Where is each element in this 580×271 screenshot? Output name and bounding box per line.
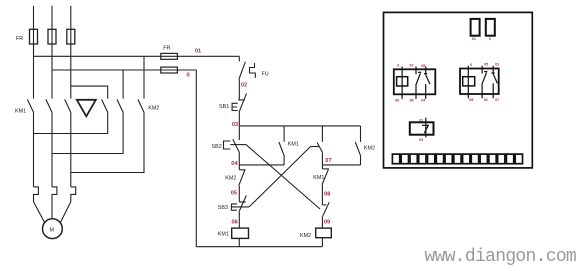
pushbutton SB3 NC (left branch) <box>239 201 246 203</box>
svg-text:02: 02 <box>241 82 247 88</box>
wire KM2 c2 bottom to line V <box>52 112 123 153</box>
contactor KM1 main contact 1 <box>27 99 33 112</box>
fuse FU2 block <box>486 19 495 36</box>
pushbutton SB1 (NC stop) <box>238 93 240 100</box>
fuse FU1 block <box>471 19 480 36</box>
contactor block KM2 <box>460 66 499 99</box>
svg-text:SB2: SB2 <box>212 144 222 150</box>
heater jog line V <box>52 187 57 218</box>
contactor KM1 main contact 2 <box>46 99 52 112</box>
wire neutral 0 vertical down <box>195 70 197 247</box>
svg-text:01: 01 <box>419 119 423 123</box>
contactor KM1 main contact 3 <box>65 99 71 112</box>
svg-text:05: 05 <box>421 64 425 68</box>
svg-text:0: 0 <box>470 63 472 67</box>
svg-text:03: 03 <box>232 122 238 128</box>
svg-text:05: 05 <box>231 190 237 196</box>
mechanical interlock triangle <box>77 100 96 117</box>
wire SB1 to node 03 <box>238 112 240 126</box>
contactor coil KM1 <box>232 228 249 238</box>
wire KM2 coil to bottom bus <box>321 238 323 247</box>
wire bottom bus 0 <box>196 246 322 248</box>
wire bus 01 top horizontal <box>34 55 240 57</box>
contactor KM2 main contact 3 <box>138 99 144 112</box>
svg-text:07: 07 <box>495 98 499 102</box>
svg-text:03: 03 <box>419 138 423 142</box>
svg-text:04: 04 <box>484 98 488 102</box>
pushbutton SB2 NC (right branch) <box>322 204 326 206</box>
svg-text:09: 09 <box>469 98 473 102</box>
svg-text:KM2: KM2 <box>364 145 375 151</box>
contactor KM2 main contact 2 <box>117 99 123 112</box>
svg-text:09: 09 <box>324 220 330 226</box>
wire SB2 to node 04 <box>238 152 240 165</box>
svg-text:07: 07 <box>410 63 414 67</box>
node 03 bus <box>239 125 360 127</box>
svg-text:04: 04 <box>421 99 425 103</box>
contactor KM2 aux NO contact <box>360 126 362 142</box>
contactor coil KM2 <box>316 228 332 238</box>
motor M circle <box>43 219 63 239</box>
wire motor line W <box>70 112 72 186</box>
svg-text:SB1: SB1 <box>219 104 229 110</box>
wire FU to SB1 <box>238 79 240 93</box>
svg-text:06: 06 <box>395 99 399 103</box>
wire motor line V <box>51 112 53 186</box>
wire diagonal SB3 link <box>249 147 311 207</box>
svg-text:0: 0 <box>489 37 491 41</box>
wire diagonal SB2 link <box>246 145 320 209</box>
pushbutton SB3 NO (middle branch) <box>321 126 323 142</box>
svg-text:KM1: KM1 <box>288 142 299 148</box>
node 07 bus <box>322 164 360 166</box>
wire KM2 c3 bottom to line W <box>71 112 144 172</box>
contactor KM1 NC interlock contact <box>321 165 323 169</box>
terminal strip <box>392 154 522 164</box>
fuse FU switch <box>238 56 240 61</box>
svg-text:SB3: SB3 <box>218 205 228 211</box>
fuse/FR contact box on bus 01 <box>161 53 178 59</box>
svg-text:08: 08 <box>324 192 330 198</box>
wire node 06 <box>238 212 240 228</box>
svg-text:FU: FU <box>262 72 269 78</box>
svg-text:08: 08 <box>410 99 414 103</box>
wire tap to KM2 contact c3 <box>143 56 145 98</box>
wire node 08 <box>321 185 323 205</box>
svg-text:01: 01 <box>472 37 476 41</box>
heater jog line W <box>60 187 75 223</box>
heater jog line U <box>34 187 45 223</box>
svg-text:0: 0 <box>187 72 190 78</box>
svg-text:KM2: KM2 <box>300 233 311 239</box>
svg-text:KM2: KM2 <box>225 176 236 182</box>
thermal relay block FR <box>410 118 434 138</box>
svg-text:0: 0 <box>397 64 399 68</box>
wire jumper L3 to KM2 contact c1 <box>71 86 108 99</box>
thermal element FR phase 2 box <box>48 29 56 44</box>
wire L1 vertical <box>33 6 35 99</box>
wire node 09 <box>321 216 323 228</box>
svg-text:KM1: KM1 <box>15 109 26 115</box>
wire KM2 c1 bottom to line U <box>34 112 108 133</box>
contactor block KM1 <box>394 67 436 99</box>
svg-text:M: M <box>50 227 55 233</box>
svg-text:05: 05 <box>484 63 488 67</box>
svg-text:07: 07 <box>325 158 331 164</box>
wire tap to KM2 contact c2 <box>122 70 124 99</box>
wire L3 vertical <box>70 6 72 99</box>
wire SB3 to node 07 <box>321 152 323 165</box>
contactor KM2 main contact 1 <box>102 99 108 112</box>
layout panel border <box>384 12 533 168</box>
thermal element FR phase 1 box <box>30 29 38 44</box>
contactor KM2 NC interlock contact <box>238 165 240 170</box>
node 04 bus <box>239 164 284 166</box>
svg-text:www.diangon.com: www.diangon.com <box>425 247 577 267</box>
wire KM1 coil to bottom bus <box>238 238 240 246</box>
svg-text:KM2: KM2 <box>148 106 159 112</box>
svg-text:KM1: KM1 <box>313 175 324 181</box>
svg-text:FR: FR <box>16 36 23 42</box>
contactor KM1 aux NO contact <box>283 126 285 142</box>
wire bus 0 horizontal <box>52 69 196 71</box>
wire L2 vertical <box>51 6 53 99</box>
svg-text:KM1: KM1 <box>218 232 229 238</box>
svg-text:03: 03 <box>495 63 499 67</box>
svg-text:04: 04 <box>231 161 238 167</box>
svg-text:06: 06 <box>232 219 238 225</box>
wire node 05 <box>238 186 240 202</box>
svg-text:01: 01 <box>195 49 201 55</box>
wire motor line U <box>33 112 35 186</box>
pushbutton SB2 (NO start fwd) <box>238 126 240 140</box>
fuse/FR contact box on bus 0 <box>161 67 178 73</box>
svg-text:FR: FR <box>163 45 170 51</box>
thermal element FR phase 3 box <box>67 29 75 44</box>
